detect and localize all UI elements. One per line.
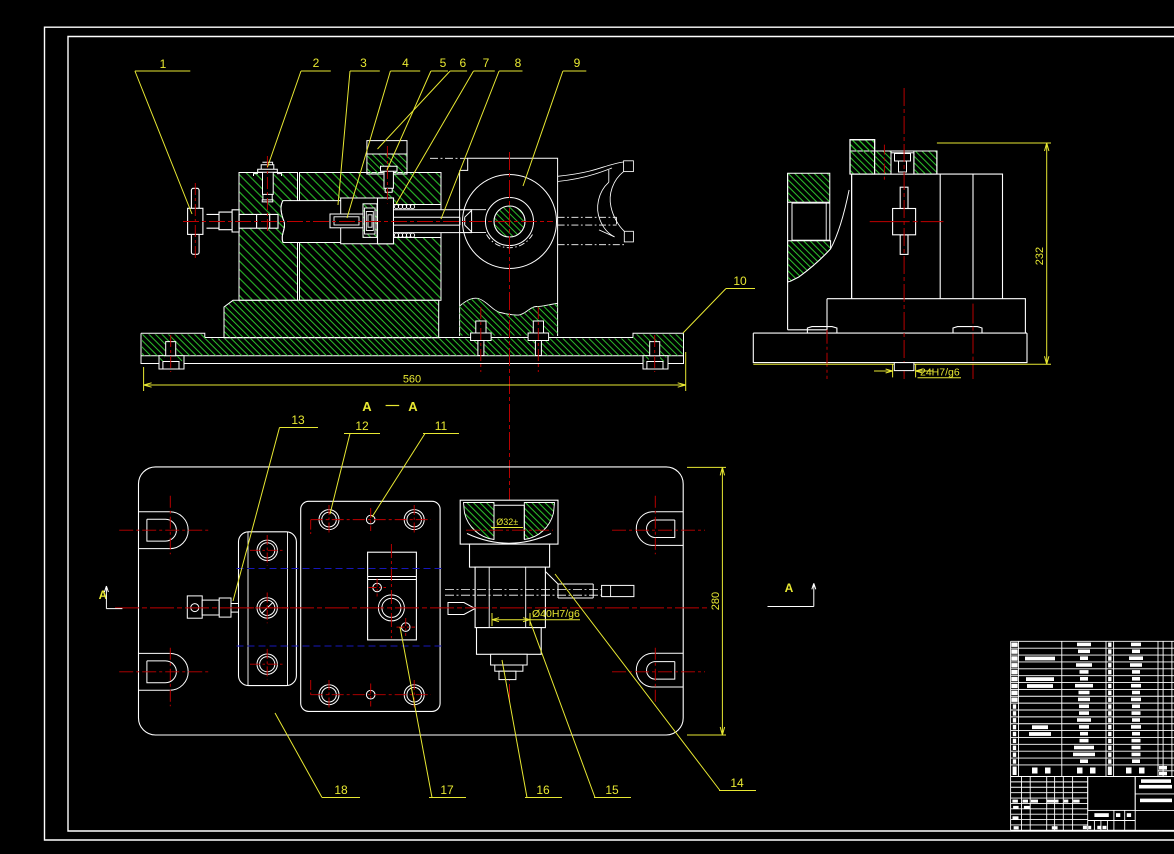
callout 15 leader <box>530 621 631 798</box>
base right bolt hatch flanks <box>644 356 649 361</box>
callout 8 leader <box>441 71 523 219</box>
pv slide plate inner lines <box>248 532 288 686</box>
top cap part 5 <box>367 141 407 154</box>
pedestal block hatched <box>224 300 439 338</box>
spring coils top <box>394 205 414 209</box>
pv slot top-right <box>636 512 683 546</box>
callout 17 leader <box>400 627 466 798</box>
callout 1 leader <box>135 71 192 214</box>
front view red centerlines <box>171 146 655 702</box>
pv center block <box>368 552 417 640</box>
sv top cap hatch right <box>914 151 937 174</box>
svg-text:8: 8 <box>515 56 522 70</box>
pv screw tip left <box>448 603 475 615</box>
pv slide plate hole centerlines <box>244 535 291 680</box>
svg-text:12: 12 <box>355 419 369 433</box>
pv blue fence lines <box>237 569 446 647</box>
svg-text:13: 13 <box>291 413 305 427</box>
callout 14 leader <box>555 574 756 791</box>
fork workpiece <box>558 161 634 245</box>
base right bolt recess <box>643 356 668 369</box>
bore lines left of circle <box>460 210 486 233</box>
svg-text:16: 16 <box>536 783 550 797</box>
handwheel bar part 1 <box>191 188 199 254</box>
callout 9 leader <box>523 71 586 186</box>
pv mid block <box>470 544 550 567</box>
sv base step tabs <box>807 327 982 334</box>
callout 5 leader <box>387 71 448 170</box>
screw cavity window <box>281 201 341 243</box>
232 dimension <box>753 143 1051 364</box>
pv lower blocks <box>477 628 542 655</box>
pv rod end piece <box>602 585 634 596</box>
pv slot bottom-left <box>139 653 189 690</box>
pv right assembly top block <box>460 500 558 544</box>
callout 12 leader <box>330 434 380 515</box>
callout 6 leader <box>378 71 468 149</box>
pv top block hatch left <box>464 503 495 540</box>
24H7/g6 tenon <box>894 363 914 371</box>
sv left bracket window <box>792 203 830 240</box>
callout 10 leader <box>683 289 755 334</box>
svg-text:6: 6 <box>459 56 466 70</box>
base plate outline <box>141 333 684 363</box>
pv right assembly vertical red <box>466 529 553 531</box>
bolt2 centerline <box>266 156 268 234</box>
callout 16 leader <box>502 660 562 798</box>
sv left column <box>788 173 852 330</box>
sv left boss S-curve <box>790 190 849 281</box>
svg-text:Ø40H7/g6: Ø40H7/g6 <box>532 608 580 620</box>
svg-text:11: 11 <box>435 419 448 433</box>
svg-text:4: 4 <box>402 56 409 70</box>
svg-text:2: 2 <box>313 56 320 70</box>
pv center block holes <box>373 583 410 631</box>
pv main plate <box>301 501 440 711</box>
bolt 2 <box>258 162 278 202</box>
base right bolt centerline <box>654 335 656 372</box>
joint line between bodies <box>298 173 300 301</box>
sv cap screw <box>895 154 911 173</box>
pv slot top-left <box>139 512 189 549</box>
sv cap top profile <box>850 140 937 174</box>
pv handle <box>187 596 238 618</box>
bushing inner rings <box>365 208 376 234</box>
sv center pin stem top <box>900 187 908 208</box>
middle circle <box>486 198 534 246</box>
title block grid <box>1011 777 1174 831</box>
sv left bracket hatch upper <box>788 173 830 202</box>
pv rod right <box>545 572 593 599</box>
svg-text:Ø32±: Ø32± <box>496 517 519 527</box>
column bolt1 centerline <box>480 307 482 372</box>
pv top block gap <box>494 505 524 539</box>
pv small pin holes <box>366 515 375 524</box>
clamp block part 7 <box>378 198 394 244</box>
spring coils bottom <box>394 233 414 237</box>
base plate hatch right section <box>633 334 683 355</box>
pv main plate bottom bolt line <box>311 694 431 696</box>
svg-text:A: A <box>785 581 794 595</box>
svg-text:A: A <box>408 399 418 414</box>
base left bolt hatch flanks <box>160 356 165 361</box>
svg-text:14: 14 <box>730 776 744 790</box>
BOM table grid <box>1011 641 1174 776</box>
screw shaft segments <box>207 210 279 232</box>
svg-text:24H7/g6: 24H7/g6 <box>920 367 960 379</box>
base right bolt <box>647 342 663 369</box>
pv main axis <box>115 607 708 609</box>
pv main plate bolt holes <box>319 510 424 705</box>
section centerline long vertical <box>509 152 511 702</box>
callout 7 leader <box>396 71 495 204</box>
svg-text:5: 5 <box>440 56 447 70</box>
pv body block <box>475 567 545 628</box>
handwheel hub <box>188 208 203 234</box>
bolt 2 seat step <box>254 174 282 176</box>
sv top cap mid hatch <box>875 151 891 174</box>
callout 13 leader <box>233 428 318 602</box>
sv mid slab <box>827 299 1025 333</box>
sv top cap hatch left <box>850 140 875 174</box>
pv slot centerlines horizontal <box>119 529 208 531</box>
svg-text:A: A <box>362 399 372 414</box>
main axis centerline <box>183 221 553 223</box>
left body block hatched <box>239 173 298 301</box>
24H7/g6 dimension <box>874 364 961 378</box>
mechanism window black <box>341 198 441 244</box>
circle body column <box>460 158 558 336</box>
column bolt 1 <box>471 321 492 356</box>
svg-text:9: 9 <box>574 56 581 70</box>
sv base outline <box>753 333 1027 363</box>
pv plate outline <box>139 467 684 735</box>
sv red centerlines <box>827 88 973 379</box>
right body block hatched <box>300 173 442 301</box>
svg-text:560: 560 <box>403 374 421 386</box>
screw part 4 <box>381 166 398 192</box>
pv left slide plate <box>239 532 297 686</box>
push rod <box>394 210 472 233</box>
screw tip in cavity <box>330 214 363 228</box>
sv left bracket hatch lower <box>788 241 831 282</box>
sv center pin block <box>893 209 916 235</box>
inner circle hatched <box>494 206 525 237</box>
svg-text:280: 280 <box>710 592 722 610</box>
BOM item rows content <box>1011 643 1111 764</box>
column bolt2 centerline <box>537 307 539 372</box>
bushing stack hatched <box>363 204 377 238</box>
pv slide plate holes <box>257 540 277 674</box>
hatch below wavy line <box>460 298 558 335</box>
280 dimension <box>687 467 726 735</box>
callout 3 leader <box>338 71 380 205</box>
callout 11 leader <box>372 434 459 518</box>
big circle outer <box>463 175 557 269</box>
pv hidden lines <box>445 590 602 596</box>
handwheel centerline <box>194 183 196 259</box>
sv center pin stem bottom <box>900 235 908 255</box>
A-A section label <box>362 399 418 414</box>
bottom callout leaders <box>233 428 756 798</box>
screw4 centerline <box>386 146 388 204</box>
base plate hatch left section <box>142 334 205 355</box>
base left bolt centerline <box>170 335 172 372</box>
wavy break line in column <box>460 298 558 315</box>
callout 4 leader <box>347 71 420 218</box>
callout 18 leader <box>275 713 360 798</box>
pv top block hatch right <box>524 503 554 540</box>
svg-text:1: 1 <box>160 57 167 71</box>
pv slot centerlines vertical <box>169 496 171 555</box>
svg-text:7: 7 <box>483 56 490 70</box>
title block labels <box>1012 779 1172 829</box>
pv red centerlines <box>115 496 708 710</box>
base plate hatch mid band <box>205 339 633 356</box>
column bolt 2 <box>528 321 549 356</box>
pv main plate top bolt line <box>311 519 431 521</box>
svg-text:3: 3 <box>360 56 367 70</box>
sv top cap window <box>891 153 914 174</box>
base left bolt recess <box>159 356 184 369</box>
svg-text:18: 18 <box>334 783 348 797</box>
svg-text:232: 232 <box>1034 247 1046 265</box>
callout 2 leader <box>268 71 331 167</box>
560 dimension <box>144 352 686 391</box>
base left bolt <box>163 342 179 369</box>
hidden thread arc bottom <box>487 235 533 248</box>
pv washer arc <box>467 534 551 544</box>
A-A dash <box>386 405 400 407</box>
BOM header row labels <box>1013 766 1167 775</box>
svg-text:10: 10 <box>733 274 747 288</box>
svg-text:15: 15 <box>605 783 619 797</box>
sv main body <box>852 174 1003 299</box>
pv slot bottom-right <box>636 653 683 687</box>
hidden dash line top of column <box>430 157 468 159</box>
pv center block centerlines <box>390 544 392 638</box>
svg-text:17: 17 <box>440 783 454 797</box>
